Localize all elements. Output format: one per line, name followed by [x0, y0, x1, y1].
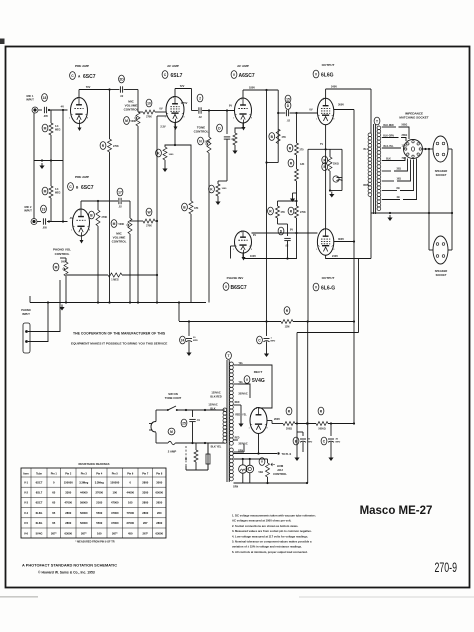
ref circle C11 — [257, 336, 263, 344]
svg-text:4Ω: 4Ω — [397, 196, 400, 199]
ref circle R7 — [146, 99, 152, 107]
wire H14 link — [297, 332, 359, 334]
svg-text:3.3Meg: 3.3Meg — [95, 480, 104, 484]
ref circle C4 item 17 — [117, 188, 123, 196]
wire V5 plate down — [326, 255, 371, 258]
svg-text:6SC7: 6SC7 — [81, 185, 94, 191]
svg-text:RED: RED — [235, 438, 240, 440]
svg-text:5V4G: 5V4G — [36, 531, 43, 535]
svg-text:AF AMP: AF AMP — [237, 64, 249, 68]
svg-text:MFD: MFD — [271, 341, 276, 343]
svg-text:120VAC: 120VAC — [208, 404, 217, 407]
svg-text:65: 65 — [52, 511, 55, 515]
svg-text:.005: .005 — [42, 227, 47, 230]
svg-text:2800: 2800 — [142, 501, 148, 505]
resistor R13 1000 ohm — [216, 184, 220, 196]
ref circle R24 — [318, 407, 324, 415]
svg-text:Pin 3: Pin 3 — [81, 473, 88, 476]
svg-text:V-2: V-2 — [24, 491, 29, 495]
ref circle R13 — [209, 185, 215, 193]
svg-text:100: 100 — [113, 491, 118, 495]
svg-text:2800: 2800 — [142, 480, 148, 484]
svg-text:Pin 6: Pin 6 — [127, 473, 134, 476]
svg-text:160: 160 — [97, 531, 102, 535]
tube designator V1A 6SC7 — [70, 72, 76, 80]
svg-text:MFD: MFD — [336, 442, 341, 444]
tube designator V5 6L6G — [313, 283, 319, 291]
plate rail V2 72V — [175, 88, 192, 90]
svg-text:EQUIPMENT MAKES IT POSSIBLE TO: EQUIPMENT MAKES IT POSSIBLE TO BRING YOU… — [71, 342, 167, 346]
ground symbol R13 — [217, 199, 219, 202]
potentiometer R9 mic volume2 500K — [128, 218, 132, 234]
svg-text:1000: 1000 — [169, 154, 175, 156]
svg-text:MFD: MFD — [193, 340, 198, 342]
wire V1A cathode return — [62, 110, 64, 161]
wire sp socket riser left — [428, 149, 430, 213]
wire junction to tone pot — [208, 111, 210, 138]
svg-text:TONE CONT: TONE CONT — [165, 396, 182, 400]
svg-text:70V: 70V — [86, 85, 91, 89]
svg-text:M: M — [44, 189, 47, 193]
wire V3B bottom out — [243, 253, 288, 259]
svg-text:44000: 44000 — [127, 491, 135, 495]
potentiometer R6 mic volume 500K — [136, 112, 140, 126]
svg-text:3000: 3000 — [156, 480, 162, 484]
ref circle R6 500K — [124, 117, 130, 125]
tube designator V1B 6SC7 — [68, 183, 74, 191]
tube designator V3B 6SC7 — [223, 283, 229, 291]
svg-text:M: M — [113, 222, 116, 226]
wire speaker socket right — [448, 148, 452, 150]
power transformer T2 heater winding — [230, 459, 234, 463]
svg-text:MEG: MEG — [55, 192, 61, 195]
svg-text:2650: 2650 — [156, 501, 162, 505]
svg-text:-4V: -4V — [60, 105, 64, 109]
capacitor C6 tone .02 — [224, 136, 230, 138]
wire C6 to R13 — [226, 145, 228, 181]
svg-text:T: T — [376, 119, 378, 123]
ground symbol C10 — [188, 350, 190, 353]
svg-text:BLU: BLU — [364, 148, 369, 151]
ref circle R20 b — [322, 163, 328, 171]
mic 1 input jack J1 — [33, 108, 36, 111]
pilot lamp PL1 — [239, 465, 247, 473]
wire pot2 tap to R10 — [130, 220, 143, 222]
ref circle C15 — [321, 437, 327, 445]
wire C1 to V1A grid — [48, 109, 68, 111]
wire mic2 jack sleeve up — [33, 161, 35, 219]
svg-text:Pin 2: Pin 2 — [65, 473, 72, 476]
wire C12 bottom — [192, 429, 194, 443]
wire hv to rect plate 2 — [238, 384, 250, 398]
wire V4 cathode down — [325, 125, 327, 229]
svg-text:BLK-RED: BLK-RED — [383, 125, 394, 127]
svg-text:6SC7: 6SC7 — [36, 501, 43, 505]
svg-text:165: 165 — [128, 501, 133, 505]
wire V4 plate up to rail — [325, 89, 327, 98]
ref circle R26 47K — [182, 203, 188, 211]
svg-text:0V: 0V — [290, 228, 293, 232]
svg-text:18: 18 — [43, 96, 47, 100]
capacitor C9 bias bypass — [337, 177, 343, 179]
ref circle item 19 — [41, 205, 47, 213]
svg-text:500K: 500K — [119, 223, 125, 226]
svg-text:16Ω: 16Ω — [397, 179, 402, 181]
capacitor C13 — [207, 443, 209, 454]
svg-text:A PHOTOFACT STANDARD NOTATION: A PHOTOFACT STANDARD NOTATION SCHEMATIC — [22, 563, 117, 568]
capacitor C2 .005 — [42, 218, 44, 224]
ref circle R11 — [156, 149, 162, 157]
ref circle tone pot — [198, 137, 204, 145]
resistor R2 3.3 MEG mic2 grid — [49, 186, 53, 198]
svg-text:65: 65 — [52, 521, 55, 525]
svg-text:250Ω: 250Ω — [333, 164, 339, 166]
svg-text:5500: 5500 — [96, 511, 102, 515]
svg-text:V-1: V-1 — [24, 480, 29, 484]
capacitor C15 40MFD — [330, 424, 332, 437]
power transformer T2 HV secondary — [230, 362, 234, 366]
output transformer T1 primary — [370, 89, 372, 133]
svg-text:CONTROL: CONTROL — [194, 130, 209, 134]
wire R10 to riser — [155, 220, 157, 222]
wire mic1 jack sleeve down — [33, 113, 35, 161]
svg-text:0V: 0V — [229, 104, 232, 108]
wire 1meg to junction — [122, 274, 157, 276]
svg-text:MIC 2: MIC 2 — [25, 205, 32, 209]
tube V4 6L6G output — [317, 98, 333, 124]
svg-text:50Ω: 50Ω — [259, 471, 264, 474]
resistor R1 3.3 MEG mic1 grid — [49, 123, 53, 135]
svg-text:2800: 2800 — [65, 511, 71, 515]
wire R18 link — [278, 200, 297, 202]
ref circle R23 — [286, 407, 292, 415]
svg-text:0V: 0V — [159, 107, 162, 111]
svg-text:450: 450 — [128, 531, 133, 535]
tube V3A 6SC7 af amp — [235, 98, 252, 123]
potentiometer R3 phono vol 500K — [64, 262, 68, 276]
svg-text:MFD: MFD — [308, 442, 313, 444]
svg-text:270-9: 270-9 — [435, 560, 458, 575]
capacitor C10 bus bypass — [188, 321, 190, 336]
svg-text:267*: 267* — [112, 531, 118, 535]
svg-text:150000: 150000 — [110, 480, 119, 484]
svg-text:6SL7: 6SL7 — [171, 73, 183, 79]
svg-text:260: 260 — [157, 511, 162, 515]
svg-text:500Ω: 500Ω — [402, 125, 408, 127]
svg-text:6L6G: 6L6G — [36, 521, 43, 525]
svg-text:M: M — [170, 430, 173, 434]
transformer tap wire 7 — [382, 190, 397, 192]
svg-text:6. All controls at minimum, p: 6. All controls at minimum, proper outpu… — [232, 550, 308, 554]
svg-text:260V: 260V — [274, 417, 280, 421]
svg-text:267*: 267* — [51, 531, 57, 535]
svg-text:6SC7: 6SC7 — [83, 74, 96, 80]
svg-text:72V: 72V — [180, 84, 185, 88]
phono input jack J3 — [23, 323, 30, 353]
wire socket to speaker socket — [423, 148, 434, 150]
wire sp socket riser right — [451, 149, 453, 213]
svg-text:T: T — [227, 354, 229, 358]
ref circle R9 500K — [111, 220, 117, 228]
svg-text:270K: 270K — [102, 216, 108, 219]
svg-text:270K: 270K — [146, 225, 152, 228]
svg-text:THE COOPERATION OF THE MANUFAC: THE COOPERATION OF THE MANUFACTURER OF T… — [73, 332, 166, 336]
screen rail V5 — [334, 241, 354, 243]
hv tap YEL bottom — [234, 383, 239, 385]
svg-text:V-5: V-5 — [24, 521, 29, 525]
svg-text:PRE AMP: PRE AMP — [75, 175, 89, 179]
svg-text:270K: 270K — [146, 116, 152, 119]
svg-text:7V: 7V — [320, 142, 323, 146]
resistor R14 cathode V3A — [233, 133, 237, 145]
screen rail V4 — [334, 109, 354, 111]
resistor R19 270K phase inv — [296, 201, 298, 206]
wire phono tap to 1meg — [66, 274, 108, 276]
wire V3B grid left — [231, 245, 235, 247]
svg-text:INPUT: INPUT — [26, 98, 34, 102]
svg-text:Pin 8: Pin 8 — [156, 473, 163, 476]
svg-text:CONTROL: CONTROL — [112, 240, 127, 244]
wire bus1 left end up — [29, 296, 31, 303]
wire phono pot top — [60, 257, 66, 259]
svg-text:Tube: Tube — [36, 473, 42, 476]
potentiometer R12 tone 500K — [207, 137, 211, 153]
svg-text:6L6-G: 6L6-G — [321, 286, 335, 292]
svg-text:17: 17 — [118, 190, 122, 194]
svg-text:BLK: BLK — [386, 158, 391, 160]
ref circle C5 — [197, 94, 203, 102]
wire C7 to V4 grid — [290, 112, 318, 114]
power transformer T2 core — [226, 360, 228, 482]
svg-text:0V: 0V — [309, 108, 312, 112]
svg-text:V-6: V-6 — [24, 531, 29, 535]
svg-text:270K: 270K — [113, 145, 119, 148]
resistor R15 47K dropping — [276, 129, 280, 144]
svg-text:2 AMP: 2 AMP — [168, 450, 177, 454]
resistor R22 surge — [195, 443, 197, 450]
svg-text:47000: 47000 — [111, 511, 119, 515]
svg-text:27000: 27000 — [96, 491, 104, 495]
svg-text:5. Nominal tolerance on compo: 5. Nominal tolerance on component values… — [232, 540, 312, 544]
ground symbol mic bus — [41, 163, 43, 166]
svg-text:BLK-GRN: BLK-GRN — [383, 135, 394, 137]
svg-text:59000: 59000 — [80, 501, 88, 505]
svg-text:2. Socket connections are sho: 2. Socket connections are shown as botto… — [232, 524, 299, 528]
svg-text:Masco ME-27: Masco ME-27 — [360, 505, 433, 517]
tube designator V2 6SL7 — [162, 71, 168, 79]
wire C4 to mic vol 2 — [129, 201, 131, 218]
wire V2 plate up — [174, 89, 176, 97]
ref circle R5 270K — [100, 142, 106, 150]
wire mic2 to C2 — [37, 221, 41, 223]
transformer tap wire 2 — [382, 137, 399, 139]
svg-text:SPEAKER: SPEAKER — [435, 169, 448, 173]
wire x157 riser to V2 grid2 — [156, 116, 158, 221]
svg-text:35Ω: 35Ω — [397, 169, 402, 171]
ref circle PL — [259, 458, 265, 466]
ground symbol V2 cathode — [164, 166, 166, 169]
svg-text:47000: 47000 — [111, 521, 119, 525]
bias bottom wire — [330, 190, 342, 192]
wire V3B plate to V5 grid — [252, 232, 297, 234]
wire switch to transformer — [178, 409, 224, 411]
svg-text:24: 24 — [181, 338, 185, 342]
svg-text:5V4G: 5V4G — [252, 378, 265, 384]
svg-text:Pin 7: Pin 7 — [142, 473, 149, 476]
hv tap YEL top — [234, 364, 239, 366]
impedance matching socket SO1 — [404, 140, 423, 159]
svg-text:25: 25 — [182, 421, 186, 425]
ground bus mic section — [34, 160, 63, 162]
svg-text:12K: 12K — [300, 163, 305, 166]
svg-text:Item: Item — [23, 473, 29, 476]
svg-text:150000: 150000 — [64, 480, 73, 484]
capacitor C11 1 MFD bypass — [266, 321, 268, 336]
ref circle C8 — [278, 227, 284, 235]
ref circle item 18 — [42, 94, 48, 102]
svg-text:2: 2 — [199, 96, 201, 100]
svg-text:120VAC: 120VAC — [211, 392, 220, 395]
ref circle C7 a — [285, 95, 291, 103]
wire C5 to V3 grid — [202, 110, 234, 112]
svg-text:CONTROL: CONTROL — [124, 108, 139, 112]
ground symbol divider — [292, 196, 294, 199]
svg-text:variation of ± 15% in voltage: variation of ± 15% in voltage and resist… — [232, 545, 302, 549]
ground symbol V3A cathode — [234, 148, 236, 151]
svg-text:267: 267 — [143, 521, 148, 525]
transformer T1 core — [373, 124, 375, 214]
svg-text:240V: 240V — [331, 85, 337, 89]
ref circle T2 — [226, 352, 232, 360]
wire V1A plate to rail — [78, 90, 80, 98]
svg-text:2800: 2800 — [65, 521, 71, 525]
svg-text:1 MEG: 1 MEG — [111, 279, 119, 282]
svg-text:AF AMP: AF AMP — [167, 64, 179, 68]
svg-text:1000: 1000 — [222, 188, 228, 190]
svg-text:BLK-RED: BLK-RED — [210, 396, 221, 399]
wire V3A plate up — [242, 90, 244, 98]
bias right riser — [341, 149, 343, 190]
plate rail V1B — [81, 200, 118, 202]
svg-text:19: 19 — [42, 207, 46, 211]
wire V2 cathode down — [165, 123, 175, 148]
resistor R4 1 MEG — [108, 273, 122, 277]
transformer tap wire 1 — [382, 126, 396, 128]
svg-text:52000: 52000 — [80, 511, 88, 515]
svg-text:27000: 27000 — [127, 521, 135, 525]
mic 2 input jack J2 — [32, 220, 35, 223]
wire pot tap to R7 — [138, 111, 143, 113]
svg-text:2D: 2D — [119, 77, 124, 81]
svg-text:180V: 180V — [249, 86, 255, 90]
capacitor C5 coupling V2 — [192, 110, 198, 112]
resistor R23 200 ohm filter — [283, 422, 295, 426]
hv tap RED — [234, 439, 239, 441]
resistor R24 5000 ohm filter — [316, 422, 328, 426]
svg-text:300V: 300V — [338, 237, 344, 241]
svg-text:V-4: V-4 — [24, 511, 29, 515]
capacitor C12 line bypass — [192, 410, 194, 417]
transformer tap wire 5 — [382, 170, 391, 172]
svg-text:63000: 63000 — [156, 531, 164, 535]
wire screen riser x354 — [353, 110, 355, 424]
table RESISTANCE READINGS grid — [21, 468, 166, 538]
ground bus 2 — [179, 321, 281, 323]
ac plug P1 — [151, 422, 156, 433]
wire plate rail down to C5 — [191, 89, 193, 111]
svg-text:47000: 47000 — [111, 501, 119, 505]
wire heater top link — [234, 458, 268, 460]
wire mic1 to C1 — [38, 109, 42, 111]
svg-text:Pin 5: Pin 5 — [112, 473, 119, 476]
wire hum to riser x307 — [307, 322, 309, 484]
transformer tap wire 9 — [382, 212, 403, 214]
svg-text:3300: 3300 — [65, 491, 71, 495]
svg-text:.005: .005 — [43, 115, 48, 118]
svg-text:© Howard W. Sams & Co., Inc.: © Howard W. Sams & Co., Inc. 1953 — [38, 571, 95, 575]
wire node to V5 grid — [297, 232, 318, 234]
wire fil winding to rect — [234, 451, 245, 453]
wire V3A cathode — [235, 123, 243, 133]
output transformer T1 secondary — [377, 126, 381, 130]
svg-text:47K: 47K — [194, 207, 199, 210]
svg-text:6L6G: 6L6G — [321, 73, 334, 79]
svg-text:RECT: RECT — [254, 370, 263, 374]
svg-text:RESISTANCE READINGS: RESISTANCE READINGS — [79, 462, 110, 466]
capacitor C4 coupling V1B — [118, 198, 120, 204]
speaker socket SO2 — [433, 136, 448, 162]
lamp M1 pilot — [168, 428, 175, 435]
wire hv to rect plate 1 — [238, 365, 272, 408]
plate rail V3A 180V — [243, 89, 278, 91]
ref circle R8 270K — [89, 211, 95, 219]
svg-text:TO PL.S: TO PL.S — [282, 453, 292, 456]
ref circle R1 — [42, 124, 48, 132]
resistor R10 270K series ch2 — [143, 219, 155, 223]
svg-text:Pin 1: Pin 1 — [51, 473, 58, 476]
capacitor C1 .005 — [43, 107, 45, 113]
svg-text:240V: 240V — [332, 254, 338, 258]
svg-text:INPUT: INPUT — [22, 312, 30, 316]
ground bus 1 — [30, 302, 206, 304]
wire rail corner down — [277, 90, 279, 163]
svg-text:6SC7: 6SC7 — [36, 480, 43, 484]
wire rect cathode out — [267, 420, 272, 422]
scan mark top-left edge — [0, 39, 5, 45]
svg-text:BRN: BRN — [363, 184, 368, 187]
svg-text:V-3: V-3 — [24, 501, 29, 505]
svg-text:267*: 267* — [142, 531, 148, 535]
power transformer T2 fil winding — [230, 448, 234, 452]
svg-text:Pin 4: Pin 4 — [96, 473, 103, 476]
svg-text:CONTROL: CONTROL — [55, 252, 70, 256]
svg-text:OUTPUT: OUTPUT — [322, 276, 335, 280]
ground symbol C11 — [266, 351, 268, 354]
capacitor C7 coupling .02 — [278, 112, 285, 114]
svg-text:2.3V: 2.3V — [160, 125, 166, 129]
wire V1B plate up — [80, 201, 82, 210]
svg-text:6L6G: 6L6G — [36, 511, 43, 515]
wire interlock bottom — [186, 469, 208, 471]
svg-text:MIC 1: MIC 1 — [27, 94, 34, 98]
wire phono hot to vol control — [28, 280, 60, 332]
svg-text:GRN: GRN — [233, 487, 238, 489]
ref circle R20 a — [322, 156, 328, 164]
svg-text:SOCKET: SOCKET — [436, 273, 447, 277]
svg-text:2800: 2800 — [142, 511, 148, 515]
power transformer T2 primary — [223, 408, 227, 412]
wire transformer bottom riser — [370, 215, 372, 259]
